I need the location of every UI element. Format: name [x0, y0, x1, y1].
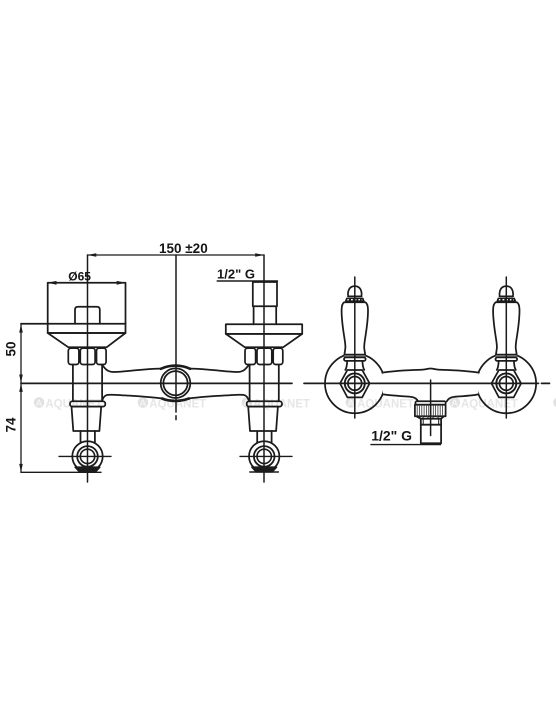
dimension 150 +-20 line — [88, 253, 265, 257]
left stub square — [75, 307, 100, 324]
right hose nut skirt — [252, 467, 276, 472]
right tailpiece — [248, 407, 278, 431]
svg-text:AQUANET: AQUANET — [357, 399, 414, 411]
right flange trapezoid — [226, 334, 302, 347]
horizontal axis line — [21, 382, 550, 384]
svg-text:A: A — [451, 398, 458, 409]
right circle axis — [240, 455, 292, 457]
centerline left post — [87, 255, 89, 482]
outlet centerline — [430, 380, 432, 436]
left circle axis — [59, 455, 111, 457]
body boss circle — [161, 368, 191, 398]
svg-text:A: A — [36, 398, 43, 409]
handle knurl band — [346, 299, 364, 302]
right hex nut — [245, 348, 283, 364]
dim 74 extension — [21, 471, 101, 473]
outlet collar — [415, 401, 445, 404]
handle ball — [348, 286, 362, 296]
handle base bands — [345, 354, 366, 356]
left collar — [70, 401, 105, 406]
watermark row AQUANET — [34, 397, 556, 411]
handle body — [342, 302, 368, 354]
left wall line — [21, 323, 126, 325]
centerline right post — [263, 255, 265, 482]
right hexagon — [492, 370, 522, 397]
left neck — [81, 431, 95, 443]
svg-text:A: A — [139, 398, 146, 409]
centerline middle — [175, 255, 177, 420]
right post stub — [253, 282, 277, 324]
right collar — [247, 401, 282, 406]
left hose nut circle — [72, 441, 102, 471]
body spindle left view — [102, 365, 161, 372]
outlet stub 1/2G — [421, 419, 441, 444]
left handle — [342, 286, 368, 370]
handle bonnet — [345, 361, 364, 370]
post centerlines right view — [354, 277, 356, 418]
body spindle right view bottom — [383, 394, 418, 401]
svg-text:50: 50 — [4, 341, 19, 356]
svg-text:1/2" G: 1/2" G — [217, 267, 255, 282]
outlet knurled nut — [415, 405, 446, 417]
left hex nut — [68, 348, 106, 364]
right view: right escutcheon — [477, 354, 537, 414]
svg-text:150 ±20: 150 ±20 — [159, 241, 208, 256]
handle shoulder — [344, 301, 365, 303]
svg-text:74: 74 — [4, 417, 19, 433]
outlet taper — [417, 416, 444, 418]
svg-text:Ø65: Ø65 — [68, 269, 91, 283]
left hexagon — [340, 370, 370, 397]
left flange trapezoid — [48, 333, 126, 347]
svg-text:A: A — [347, 398, 354, 409]
left stem — [72, 365, 74, 401]
O65 dim arrows — [48, 281, 57, 285]
right hose nut circle — [249, 441, 279, 471]
body tube white mask — [382, 369, 479, 402]
handle white silhouette — [342, 302, 368, 361]
1/2 G leader left — [217, 280, 277, 282]
right flange plate — [226, 324, 302, 334]
right view: left escutcheon — [325, 354, 385, 414]
svg-text:1/2" G: 1/2" G — [371, 427, 412, 443]
left tailpiece — [72, 407, 102, 431]
left hose nut skirt — [75, 467, 99, 472]
body spindle right view top — [382, 369, 479, 373]
right handle — [493, 286, 519, 370]
handle neck flare — [348, 296, 362, 298]
dim 50-74 vertical — [19, 324, 23, 472]
left cup rectangle (O65) — [48, 283, 126, 333]
1/2 G leader right view — [371, 444, 441, 446]
right neck — [257, 431, 271, 443]
boss junction marks — [161, 366, 190, 369]
right stem — [249, 365, 251, 401]
